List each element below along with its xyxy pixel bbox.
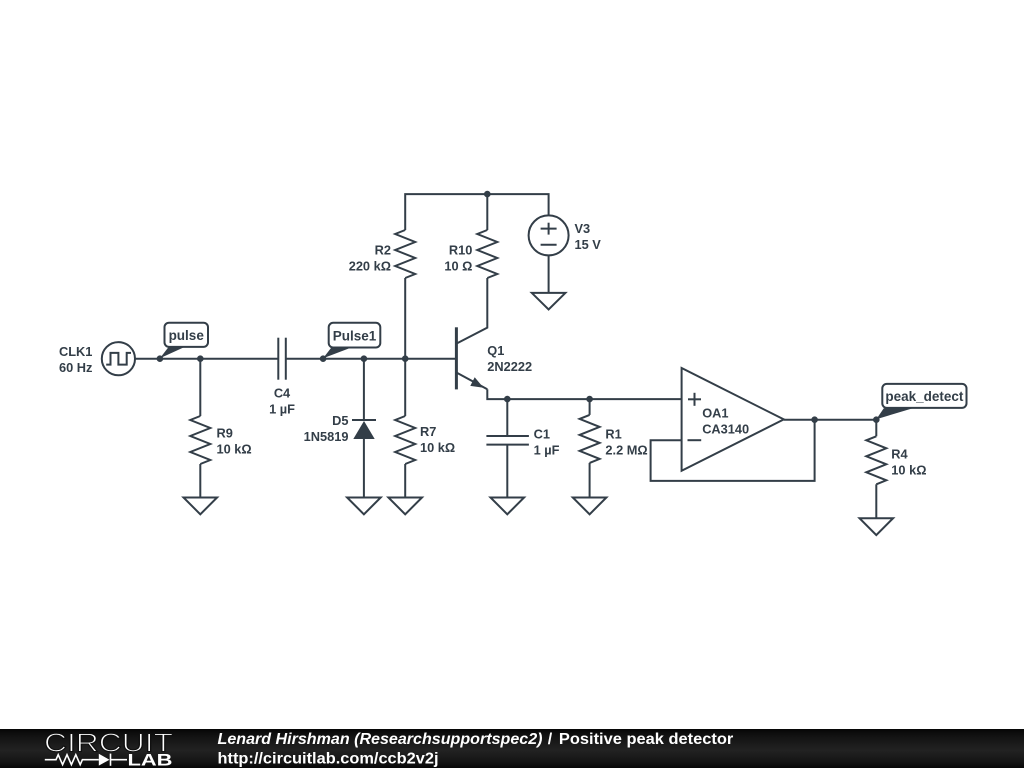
svg-text:V3: V3: [575, 221, 591, 236]
wire R9 bottom: [199, 464, 201, 498]
svg-text:R1: R1: [605, 426, 621, 441]
diode D5: [352, 420, 376, 439]
resistor R7: [395, 416, 415, 464]
wire V3 bottom: [548, 255, 550, 293]
wire R1 bottom: [589, 463, 591, 498]
node Pulse1 flag tap: [320, 355, 327, 362]
svg-text:CA3140: CA3140: [702, 421, 749, 436]
wire D5 top: [363, 359, 365, 420]
net flag peak_detect: [876, 384, 966, 419]
wire R9 top: [199, 359, 201, 416]
wire R4 bottom: [875, 484, 877, 518]
svg-text:15 V: 15 V: [575, 237, 602, 252]
wire R2 bottom: [404, 278, 406, 359]
svg-text:pulse: pulse: [169, 328, 205, 343]
svg-text:peak_detect: peak_detect: [885, 389, 964, 404]
svg-text:LAB: LAB: [128, 751, 173, 768]
node R1 tap: [586, 396, 593, 403]
svg-text:CLK1: CLK1: [59, 344, 92, 359]
wire emitter net to op-amp: [487, 389, 681, 399]
svg-text:10 Ω: 10 Ω: [444, 258, 472, 273]
node R9 tap: [197, 355, 204, 362]
wire R1 top: [589, 399, 591, 415]
value label C1 1 uF: [534, 426, 560, 457]
resistor R9: [190, 416, 210, 464]
svg-text:1 µF: 1 µF: [269, 402, 295, 417]
ground below D5: [347, 498, 381, 515]
logo resistor-diode glyph: [45, 754, 127, 766]
svg-text:D5: D5: [332, 413, 348, 428]
svg-text:OA1: OA1: [702, 406, 728, 421]
svg-text:2N2222: 2N2222: [487, 359, 532, 374]
svg-text:R9: R9: [217, 425, 233, 440]
resistor R10: [477, 230, 497, 278]
value label R1 2.2 MOhm: [605, 426, 647, 457]
transistor Q1 2N2222: [456, 327, 487, 389]
footer bar: [0, 729, 1024, 768]
ground below R7: [388, 498, 422, 515]
value label CLK1 60 Hz: [59, 344, 92, 375]
ground below R4: [860, 518, 894, 535]
wire pulse net left of C4: [135, 358, 278, 360]
value label R7 10 kOhm: [420, 424, 455, 455]
wire D5 bottom: [363, 439, 365, 498]
value label R9 10 kOhm: [217, 425, 252, 456]
svg-text:1N5819: 1N5819: [304, 429, 349, 444]
resistor R2: [395, 230, 415, 278]
node R2 R7 tap: [402, 355, 409, 362]
value label R10 10 Ohm: [444, 242, 472, 273]
svg-text:R2: R2: [375, 242, 391, 257]
wire top rail from R2 to V3: [405, 194, 548, 230]
svg-text:2.2 MΩ: 2.2 MΩ: [605, 442, 647, 457]
wire C1 bottom: [506, 445, 508, 498]
op-amp OA1 CA3140: [682, 368, 784, 471]
value label R4 10 kOhm: [891, 446, 926, 477]
wire R10 bottom to collector: [456, 278, 487, 344]
node top rail / R10 junction: [484, 191, 491, 198]
value label D5 1N5819: [304, 413, 349, 444]
clock source CLK1: [102, 342, 135, 375]
value label OA1 CA3140: [702, 406, 749, 437]
node D5 tap: [361, 355, 368, 362]
ground below V3: [532, 293, 566, 310]
svg-text:http://circuitlab.com/ccb2v2j: http://circuitlab.com/ccb2v2j: [218, 750, 439, 767]
net flag pulse: [160, 323, 208, 359]
svg-text:10 kΩ: 10 kΩ: [217, 441, 252, 456]
value label C4 1 uF: [269, 386, 295, 417]
wire R10 top: [486, 194, 488, 230]
svg-text:C1: C1: [534, 426, 550, 441]
svg-text:60 Hz: 60 Hz: [59, 360, 92, 375]
resistor R1: [580, 415, 600, 463]
value label Q1 2N2222: [487, 343, 532, 374]
ground below R1: [573, 498, 607, 515]
wire R7 top: [404, 359, 406, 416]
ground below R9: [184, 498, 218, 515]
svg-text:Lenard Hirshman (Researchsuppo: Lenard Hirshman (Researchsupportspec2)/P…: [218, 731, 734, 748]
svg-text:R4: R4: [891, 446, 908, 461]
wire R7 bottom: [404, 464, 406, 498]
wire op-amp output: [784, 419, 877, 421]
svg-text:220 kΩ: 220 kΩ: [349, 258, 391, 273]
svg-text:R10: R10: [449, 242, 472, 257]
voltage source V3: [529, 215, 569, 255]
logo CIRCUIT wordmark: [44, 727, 173, 757]
svg-text:C4: C4: [274, 386, 291, 401]
svg-text:R7: R7: [420, 424, 436, 439]
node feedback tap: [811, 416, 818, 423]
net flag Pulse1: [323, 323, 380, 358]
svg-text:Pulse1: Pulse1: [333, 328, 377, 343]
wire feedback loop: [651, 420, 815, 481]
capacitor C4: [278, 338, 286, 380]
svg-text:Q1: Q1: [487, 343, 504, 358]
resistor R4: [866, 436, 886, 484]
svg-text:10 kΩ: 10 kΩ: [891, 462, 926, 477]
node pulse flag tap: [157, 355, 164, 362]
value label R2 220 kOhm: [349, 242, 391, 273]
ground below C1: [491, 498, 525, 515]
node C1 tap: [504, 396, 511, 403]
wire pulse1 net right of C4: [286, 358, 457, 360]
wire R4 top: [875, 420, 877, 437]
node peak_detect tap: [873, 416, 880, 423]
wire C1 top: [506, 399, 508, 436]
capacitor C1: [486, 436, 529, 445]
svg-text:1 µF: 1 µF: [534, 442, 560, 457]
svg-text:10 kΩ: 10 kΩ: [420, 440, 455, 455]
value label V3 15 V: [575, 221, 602, 252]
